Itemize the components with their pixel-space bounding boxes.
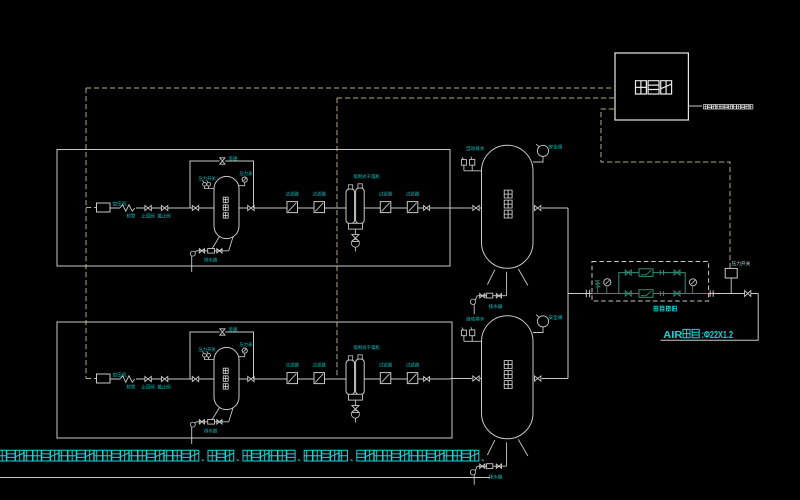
- stop valve: [161, 205, 167, 210]
- compressor unit 2 enclosure box: [57, 322, 452, 438]
- adsorption dryer towers: [346, 360, 355, 395]
- receiver drain line with trap: [477, 465, 506, 467]
- pressure switches on tank top: [204, 357, 214, 360]
- control signal riser at x=86 down to both compressor inlets: [85, 88, 87, 379]
- receiver outlet valve: [535, 376, 541, 381]
- svg-text::Φ22X1.2: :Φ22X1.2: [702, 330, 734, 341]
- tank outlet valve: [248, 205, 254, 210]
- line filter 4: [407, 202, 418, 213]
- dryer purge valve: [354, 400, 356, 405]
- svg-text:止回阀: 止回阀: [142, 213, 155, 220]
- drain outlet hook and downpipe: [190, 251, 195, 256]
- tank drain legs: [212, 237, 233, 251]
- label: control cabinet: [636, 81, 647, 94]
- svg-text:过滤器: 过滤器: [313, 191, 327, 198]
- safety valve: [537, 316, 548, 327]
- label: tank vertical 储气罐: [223, 197, 228, 202]
- receiver outlet valve: [535, 205, 541, 210]
- svg-text:空压机: 空压机: [113, 372, 127, 379]
- wire: AIR main into regulator station: [568, 293, 592, 295]
- svg-text:过滤器: 过滤器: [379, 362, 393, 369]
- line filter 1: [287, 202, 298, 213]
- tank drain line with trap: [196, 250, 228, 252]
- flange at station inlet: [586, 290, 589, 298]
- flexible hose zigzag: [120, 376, 135, 382]
- wire: receiver inlet/outlet pipes: [450, 378, 568, 380]
- station inlet gauge: [604, 279, 611, 286]
- flexible hose zigzag: [120, 205, 135, 211]
- control signal riser at x=337 down to unit 2: [336, 98, 338, 376]
- control cabinet box: [615, 53, 688, 120]
- label: receiver vertical 储气罐: [504, 190, 512, 198]
- svg-text:软管: 软管: [127, 384, 136, 391]
- line filter 3: [380, 373, 391, 384]
- unit air tank (capsule): [214, 347, 239, 409]
- svg-text:过滤器: 过滤器: [286, 362, 300, 369]
- svg-text:旁通: 旁通: [229, 155, 238, 162]
- bypass line over tank: [190, 332, 254, 379]
- label: AIR main size: [663, 329, 733, 340]
- dryer purge valve: [354, 229, 356, 234]
- wire: cabinet note leader: [688, 105, 702, 107]
- receiver drain line with trap: [477, 295, 506, 297]
- title underline: [0, 477, 490, 479]
- svg-text:排水器: 排水器: [204, 257, 218, 264]
- tank pressure gauge: [242, 177, 247, 182]
- receiver inlet valve: [473, 376, 479, 381]
- drain hook and downpipe: [470, 299, 475, 304]
- svg-text:压力表: 压力表: [240, 170, 254, 177]
- lower branch pressure regulator: [639, 290, 653, 298]
- wire: main line after station: [709, 293, 759, 295]
- pressure switches on tank top: [204, 186, 214, 189]
- label: cabinet supplier note: [704, 105, 708, 109]
- svg-text:旁通: 旁通: [229, 326, 238, 333]
- svg-text:安全阀: 安全阀: [549, 314, 563, 321]
- stop valve: [161, 376, 167, 381]
- label: drawing title note: [0, 450, 6, 461]
- svg-text:过滤器: 过滤器: [406, 362, 420, 369]
- bypass valve: [220, 158, 225, 164]
- tank pressure gauge: [242, 348, 247, 353]
- unit outlet valve: [424, 206, 430, 211]
- svg-text:吸附式干燥机: 吸附式干燥机: [354, 344, 381, 351]
- tank drain legs: [212, 408, 233, 422]
- svg-text:排水器: 排水器: [489, 474, 503, 481]
- svg-text:安全阀: 安全阀: [549, 144, 563, 151]
- flange at station outlet: [710, 290, 713, 296]
- svg-text:截止阀: 截止阀: [158, 213, 171, 220]
- wire: vertical header joining both receivers: [567, 208, 569, 379]
- station outlet gauge: [690, 279, 697, 286]
- svg-text:压力开关: 压力开关: [732, 260, 751, 267]
- svg-text:止回阀: 止回阀: [142, 384, 155, 391]
- svg-text:过滤器: 过滤器: [313, 362, 327, 369]
- drain hook and downpipe: [470, 470, 475, 475]
- bypass valve: [220, 329, 225, 335]
- station inlet relief valve: [596, 281, 600, 294]
- svg-text:自动排水: 自动排水: [466, 316, 485, 323]
- wire: main line inside station: [592, 293, 709, 295]
- receiver inlet valve: [473, 205, 479, 210]
- wire: unit pipe segments: [110, 207, 450, 209]
- regulator station dashed enclosure: [592, 262, 709, 302]
- svg-text:过滤器: 过滤器: [286, 191, 300, 198]
- line filter 4: [407, 373, 418, 384]
- compressor intake muffler box: [97, 374, 111, 383]
- svg-text:压力开关: 压力开关: [199, 175, 217, 182]
- tank outlet valve: [248, 376, 254, 381]
- svg-text:过滤器: 过滤器: [379, 191, 393, 198]
- svg-text:压力开关: 压力开关: [199, 346, 217, 353]
- tank drain line with trap: [196, 421, 228, 423]
- label: tank vertical 储气罐: [223, 368, 228, 373]
- check valve: [145, 376, 151, 381]
- wire: receiver inlet/outlet pipes: [450, 207, 568, 209]
- drain outlet hook and downpipe: [190, 422, 195, 427]
- adsorption dryer towers: [346, 189, 355, 224]
- line filter 3: [380, 202, 391, 213]
- receiver legs: [487, 439, 528, 466]
- svg-text:空压机: 空压机: [113, 201, 127, 208]
- dryer bottom collector: [349, 394, 363, 400]
- unit air tank (capsule): [214, 176, 239, 238]
- receiver pressure switches: [461, 330, 466, 336]
- svg-text:过滤器: 过滤器: [406, 191, 420, 198]
- control stub to compressor 2: [86, 378, 97, 380]
- compressor unit 1 enclosure box: [57, 150, 450, 267]
- label: regulator set: [654, 306, 658, 311]
- lower branch inlet valve: [625, 291, 631, 296]
- upper branch outlet valve: [674, 270, 680, 275]
- air receiver vessel (capsule): [482, 145, 534, 268]
- receiver pressure switches: [461, 160, 466, 166]
- svg-text:排水器: 排水器: [489, 303, 503, 310]
- dryer bottom collector: [349, 223, 363, 229]
- svg-text:截止阀: 截止阀: [158, 384, 171, 391]
- line filter 2: [314, 373, 325, 384]
- safety valve: [537, 145, 548, 156]
- control signal line A from unit 1 riser to control cabinet: [86, 87, 614, 89]
- unit outlet valve: [424, 377, 430, 382]
- control stub to compressor 1: [86, 207, 96, 209]
- label: receiver vertical 储气罐: [504, 361, 512, 369]
- receiver legs: [487, 269, 528, 296]
- control signal line B from unit 2 riser to control cabinet: [337, 97, 614, 99]
- svg-text:软管: 软管: [127, 213, 136, 220]
- valve before tank: [192, 376, 198, 381]
- check valve: [145, 205, 151, 210]
- compressor intake muffler box: [97, 203, 111, 212]
- air receiver vessel (capsule): [482, 316, 534, 439]
- svg-text:自动排水: 自动排水: [466, 145, 485, 152]
- wire: unit pipe segments: [110, 378, 450, 380]
- lower branch outlet valve: [674, 291, 680, 296]
- svg-text:压力表: 压力表: [240, 341, 254, 348]
- upper branch pressure regulator: [639, 269, 653, 277]
- svg-text:吸附式干燥机: 吸附式干燥机: [354, 173, 381, 180]
- lower branch union: [660, 291, 663, 296]
- valve before tank: [192, 205, 198, 210]
- svg-text:AIR: AIR: [663, 330, 683, 341]
- svg-text:排水器: 排水器: [204, 428, 218, 435]
- AIR main shutoff valve: [745, 291, 751, 297]
- line filter 2: [314, 202, 325, 213]
- upper redundant branch: [619, 273, 685, 294]
- line filter 1: [287, 373, 298, 384]
- wire: AIR main drop with label leader: [661, 294, 759, 341]
- upper branch union: [660, 270, 663, 275]
- bypass line over tank: [190, 161, 254, 208]
- control signal line C from cabinet to pressure switch on AIR main: [601, 109, 730, 268]
- pressure switch on AIR main: [725, 268, 737, 278]
- upper branch inlet valve: [625, 270, 631, 275]
